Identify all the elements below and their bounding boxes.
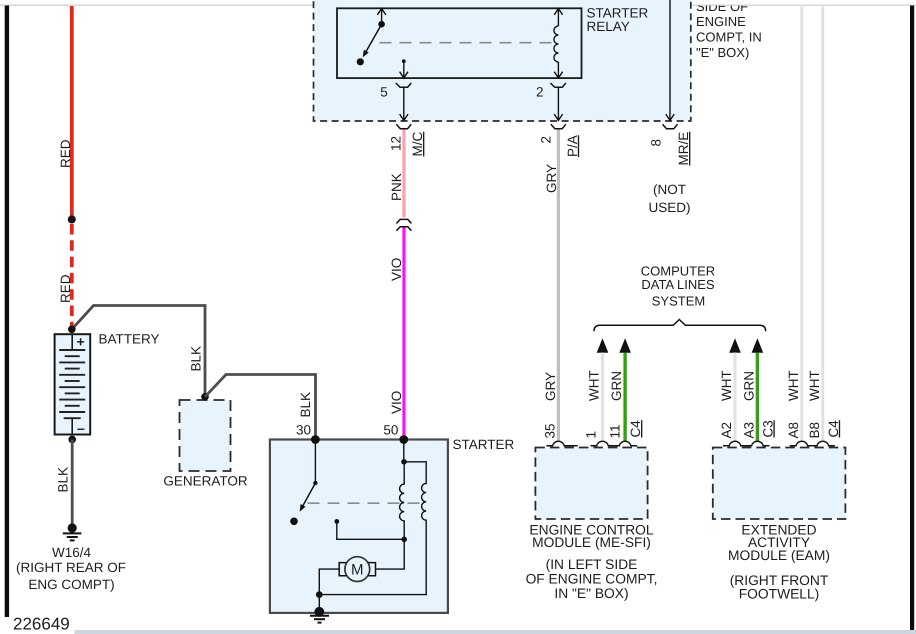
starter relay inner case box [337, 8, 582, 78]
label GRY lower [543, 372, 558, 401]
data line arrow WHT (ECM pin 1) [597, 338, 609, 353]
svg-text:DATA LINES: DATA LINES [641, 277, 715, 292]
svg-text:RED: RED [58, 274, 73, 303]
generator G1 dashed box [180, 400, 231, 471]
pin label A8 [786, 422, 801, 439]
EAM pin B8 connector bump [811, 441, 835, 445]
starter switch contact node [290, 518, 298, 526]
node battery positive junction [68, 326, 76, 334]
wire RED solid from top [70, 6, 74, 219]
label WHT (EAM pin A2) [719, 370, 734, 401]
pin label A2 [719, 422, 734, 439]
starter switch pivot node [313, 481, 317, 485]
label WHT (EAM pin B8) [807, 370, 822, 401]
svg-text:USED): USED) [648, 200, 690, 215]
wire PNK from relay pin 12 [402, 130, 405, 218]
motor right brush bracket [368, 563, 375, 576]
node battery negative junction [68, 436, 76, 444]
relay pin 5 internal stub node [402, 59, 406, 63]
relay pin 5 internal stub with arrow [400, 62, 408, 79]
relay pin 5 wire to connector with arrow [400, 87, 408, 120]
label GRN (EAM pin A3) [741, 371, 756, 401]
node generator output [201, 393, 209, 401]
connector label MR/E [676, 132, 691, 166]
svg-text:+: + [77, 334, 85, 350]
starter case ground node [314, 607, 324, 617]
battery B1 case [55, 334, 91, 434]
svg-text:BATTERY: BATTERY [99, 332, 160, 347]
wire GRY from relay pin 2 to ECM pin 35 [557, 130, 560, 442]
svg-text:226649: 226649 [13, 615, 70, 634]
starter switch movable arm with arrow [301, 483, 316, 510]
data line arrow GRN (EAM pin A3) [752, 338, 764, 353]
EAM module dashed box [713, 448, 846, 520]
svg-text:STARTER: STARTER [453, 437, 515, 452]
starter fixed contact node [334, 519, 339, 524]
starter internal dashed actuation line [308, 502, 426, 504]
label RED lower [58, 274, 73, 303]
wire VIO from break to starter pin 50 [402, 228, 405, 440]
svg-text:FOOTWELL): FOOTWELL) [739, 587, 819, 602]
wire BLK battery positive to generator [72, 306, 205, 397]
EAM pin A3 connector bump [745, 441, 769, 445]
pin label B8 [807, 422, 822, 439]
inline splice break symbol upper arc [396, 219, 411, 223]
left border bar [5, 6, 9, 618]
svg-text:C4: C4 [826, 420, 841, 438]
svg-text:35: 35 [543, 423, 558, 438]
svg-text:BLK: BLK [298, 392, 313, 418]
EAM pin A8 connector bump [790, 441, 814, 445]
relay pin 2 wire to connector with arrow [554, 87, 562, 120]
node starter pin 50 [399, 435, 408, 444]
label BLK (battery ground) [56, 467, 71, 493]
pin label 12 [389, 136, 404, 151]
label PNK [389, 173, 404, 201]
svg-text:A8: A8 [786, 422, 801, 439]
svg-text:IN "E" BOX): IN "E" BOX) [554, 586, 628, 601]
right border bar [910, 6, 914, 632]
svg-text:12: 12 [389, 136, 404, 151]
starter solenoid pull-in winding [400, 462, 405, 540]
relay switch contact node [357, 58, 364, 65]
note E-box location text [696, 0, 762, 60]
EAM pin A2 connector bump [723, 441, 747, 445]
svg-text:WHT: WHT [719, 370, 734, 401]
svg-text:A3: A3 [741, 422, 756, 439]
svg-text:SYSTEM: SYSTEM [652, 293, 705, 308]
label GRY upper [544, 164, 559, 193]
ECM pin 11 connector bump [613, 441, 637, 445]
battery plates [59, 350, 85, 418]
wire GRN to EAM pin A3 [756, 353, 759, 442]
wire BLK generator to starter pin 30 [205, 375, 316, 441]
starter motor box [270, 440, 448, 613]
svg-text:C4: C4 [628, 420, 643, 438]
starter relay outer dashed box [314, 0, 691, 121]
connector label M/C [410, 132, 425, 157]
connector C below relay at pin 8 [663, 124, 678, 129]
svg-text:ENG COMPT): ENG COMPT) [28, 577, 114, 592]
battery positive terminal lead [71, 334, 73, 350]
wire solenoid junction to motor [376, 539, 405, 569]
svg-text:RED: RED [58, 139, 73, 168]
svg-text:2: 2 [539, 136, 554, 144]
wire WHT to EAM pin B8 (vertical, full height) [821, 7, 824, 442]
label GRN (ECM pin 11) [609, 371, 624, 401]
svg-text:BLK: BLK [56, 467, 71, 493]
ground W16/4 [63, 523, 82, 540]
ECM pin 1 connector bump [591, 441, 615, 445]
relay pin 2 connector half at case [550, 83, 566, 87]
inline splice break symbol lower arc [396, 227, 411, 231]
label VIO upper [389, 258, 404, 281]
relay internal dashed actuation line [380, 42, 553, 44]
svg-text:GRY: GRY [543, 372, 558, 401]
svg-text:MODULE (EAM): MODULE (EAM) [728, 548, 830, 563]
svg-text:2: 2 [536, 85, 544, 100]
relay coil top lead with arrow to top edge [554, 8, 562, 26]
wire motor to ground bus [319, 569, 339, 611]
svg-text:–: – [77, 420, 85, 436]
starter pin 50 lead [403, 440, 405, 463]
relay switch pivot node [378, 21, 385, 28]
wire BLK battery negative to ground [71, 439, 74, 525]
relay pin 5 connector half at case [396, 83, 412, 87]
svg-text:VIO: VIO [389, 258, 404, 281]
ECM pin 35 connector bump [546, 441, 577, 445]
pin label 1 [584, 431, 599, 439]
starter contact wire to solenoid junction [337, 521, 404, 539]
pin label 8 [649, 139, 664, 147]
svg-text:30: 30 [296, 423, 311, 438]
label VIO lower [389, 391, 404, 414]
svg-text:ENGINE: ENGINE [696, 14, 746, 29]
node solenoid feed split [401, 459, 407, 465]
pin label 2 below relay [539, 136, 554, 144]
wire RED dashed to battery [70, 224, 74, 329]
svg-text:WHT: WHT [786, 370, 801, 401]
wire WHT to ECM pin 1 [601, 353, 604, 442]
page frame top rule [0, 4, 916, 6]
motor left brush bracket [339, 563, 346, 576]
connector label C4 (EAM) [826, 420, 841, 438]
svg-text:"E" BOX): "E" BOX) [696, 45, 749, 60]
relay coil L1 [554, 26, 559, 62]
svg-text:P/A: P/A [565, 135, 580, 157]
svg-text:BLK: BLK [189, 346, 204, 372]
svg-text:(NOT: (NOT [653, 182, 686, 197]
data line arrow GRN (ECM pin 11) [619, 338, 631, 353]
node on RED wire [68, 216, 76, 224]
label WHT (EAM pin A8) [786, 370, 801, 401]
svg-text:GRN: GRN [741, 371, 756, 401]
starter ground symbol [310, 616, 329, 623]
svg-text:COMPT, IN: COMPT, IN [696, 30, 762, 45]
svg-text:MR/E: MR/E [676, 132, 691, 166]
pin label 35 [543, 423, 558, 438]
label BLK (battery to generator) [189, 346, 204, 372]
relay switch movable contact arm [364, 24, 382, 55]
ECM module dashed box [535, 448, 647, 520]
svg-text:VIO: VIO [389, 391, 404, 414]
svg-text:(RIGHT REAR OF: (RIGHT REAR OF [16, 560, 126, 575]
svg-text:50: 50 [383, 423, 398, 438]
svg-text:GRY: GRY [544, 164, 559, 193]
svg-text:1: 1 [584, 431, 599, 439]
label RED upper [58, 139, 73, 168]
pin label 11 [608, 424, 623, 438]
brace for computer data lines system [594, 320, 766, 332]
svg-text:W16/4: W16/4 [52, 545, 92, 560]
battery negative terminal lead [71, 418, 73, 434]
node ground bus junction [316, 591, 323, 598]
data line arrow WHT (EAM pin A2) [729, 338, 741, 353]
relay coil bottom lead with arrow to bottom edge [554, 62, 562, 78]
svg-text:5: 5 [380, 85, 388, 100]
node starter pin 30 [311, 435, 320, 444]
wire WHT to EAM pin A2 [733, 353, 736, 442]
connector label C3 (EAM) [760, 420, 775, 437]
connector label P/A [565, 135, 580, 157]
svg-text:B8: B8 [807, 422, 822, 439]
svg-text:M: M [351, 562, 364, 579]
svg-text:11: 11 [608, 424, 623, 438]
svg-text:RELAY: RELAY [587, 19, 630, 34]
node solenoid winding junction [401, 537, 407, 543]
connector C below relay at pin 2 [551, 124, 566, 129]
wire WHT to EAM pin A8 (vertical, full height) [800, 7, 803, 442]
svg-text:WHT: WHT [587, 370, 602, 401]
svg-text:C3: C3 [760, 420, 775, 437]
bottom scrollbar [75, 630, 916, 634]
relay switch common arm with arrow to top edge [377, 8, 385, 24]
svg-text:(IN LEFT SIDE: (IN LEFT SIDE [546, 557, 638, 572]
svg-text:A2: A2 [719, 422, 734, 439]
svg-text:8: 8 [649, 139, 664, 147]
connector label C4 (ECM) [628, 420, 643, 438]
svg-text:GRN: GRN [609, 371, 624, 401]
svg-text:PNK: PNK [389, 173, 404, 201]
label WHT (ECM pin 1) [587, 370, 602, 401]
svg-text:GENERATOR: GENERATOR [163, 474, 248, 489]
svg-text:SIDE OF: SIDE OF [696, 0, 748, 14]
pin label A3 [741, 422, 756, 439]
label BLK (generator to starter) [298, 392, 313, 418]
starter solenoid hold-in winding branch [319, 462, 426, 595]
svg-text:WHT: WHT [807, 370, 822, 401]
svg-text:OF ENGINE COMPT,: OF ENGINE COMPT, [526, 572, 658, 587]
svg-text:MODULE (ME-SFI): MODULE (ME-SFI) [532, 535, 651, 550]
svg-text:M/C: M/C [410, 132, 425, 157]
relay pin 8 wire from top with arrow [666, 0, 674, 120]
wire GRN to ECM pin 11 [623, 353, 626, 442]
starter motor M1 circle [345, 557, 370, 582]
connector C below relay at pin 12 [396, 124, 411, 129]
starter switch feed from pin 30 [314, 440, 316, 483]
